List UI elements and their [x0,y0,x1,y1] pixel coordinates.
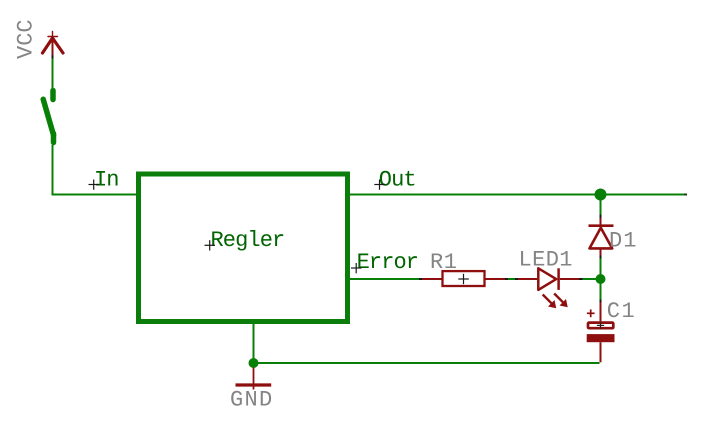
wire junction to D1 [600,195,602,215]
svg-text:In: In [94,168,119,193]
anchor cross label Out [374,180,385,190]
switch S1 [43,91,53,143]
svg-text:VCC: VCC [14,19,39,59]
power symbol GND [236,368,272,390]
junction on Error node [596,274,606,284]
power flag VCC [43,32,64,59]
wire LED1 to junction [583,278,601,280]
anchor cross R1 origin [458,274,469,284]
wire R1 to LED1 [508,278,515,280]
svg-text:R1: R1 [430,250,457,275]
LED emission arrows [543,295,552,304]
svg-text:Error: Error [357,250,419,275]
wire C1 bottom to GND rail [254,362,600,364]
anchor cross label Regler [205,240,216,250]
capacitor C1 (polarized) [587,300,615,363]
wire Out (box to junction) [350,194,601,196]
junction on Out wire [595,189,607,201]
wire Error (box to R1) [350,278,420,280]
resistor R1 [419,271,508,286]
LED LED1 [515,268,583,308]
diode D1 [589,215,614,259]
anchor cross label Error [351,263,362,273]
sheet box Regler [139,174,348,322]
junction at GND [249,358,259,368]
wire VCC to switch [52,59,54,89]
wire junction to C1 [600,279,602,300]
anchor cross C1 origin [597,322,604,330]
svg-text:Regler: Regler [210,228,284,253]
svg-text:C1: C1 [607,299,636,324]
wire box bottom to GND junction [253,324,255,363]
wire switch to In corner [53,145,138,195]
C1 plus polarity mark [587,312,595,314]
svg-text:GND: GND [230,388,274,413]
svg-text:LED1: LED1 [518,248,572,273]
svg-text:Out: Out [379,168,416,193]
wire Out (junction to right edge) [601,194,685,196]
wire D1 to Error junction [600,259,602,280]
svg-text:D1: D1 [609,229,637,254]
anchor cross label In [89,180,100,190]
